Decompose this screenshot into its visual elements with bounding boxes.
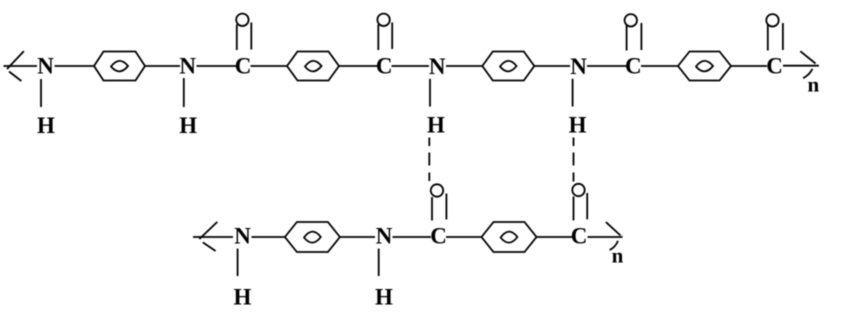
svg-text:C: C xyxy=(625,54,642,79)
left repeat bracket (top chain) xyxy=(7,51,24,81)
wire C4 to right bracket xyxy=(783,65,819,67)
wire C2 to N3 xyxy=(392,65,430,67)
right repeat bracket (bottom chain) xyxy=(606,222,621,250)
svg-text:N: N xyxy=(570,54,587,79)
C3=O3 double bond xyxy=(627,23,642,51)
wire C1 to B2 xyxy=(251,65,288,67)
svg-text:H: H xyxy=(427,113,445,138)
benzene ring B3 xyxy=(482,52,534,81)
benzene ring B1 xyxy=(94,52,145,81)
C2=O2 double bond xyxy=(378,23,392,51)
carbonyl oxygen O6 xyxy=(572,184,584,196)
wire C6 to right bracket xyxy=(588,236,623,238)
carbonyl oxygen O4 xyxy=(766,14,778,26)
wire B5 to N6 xyxy=(340,236,375,238)
svg-text:n: n xyxy=(612,244,624,268)
bond N6-H6 xyxy=(378,249,380,276)
benzene ring B2 xyxy=(287,52,339,81)
wire N3 to B3 xyxy=(446,65,483,67)
C4=O4 double bond xyxy=(768,23,783,51)
C1=O1 double bond xyxy=(237,23,252,51)
benzene ring B5 xyxy=(285,222,340,252)
bond N2-H2 xyxy=(183,78,185,107)
svg-text:H: H xyxy=(375,285,393,310)
wire N5 to B5 xyxy=(252,236,286,238)
wire bracket to N5 xyxy=(193,236,233,238)
carbonyl oxygen O3 xyxy=(625,14,637,26)
wire bracket to N1 xyxy=(4,65,38,67)
bond N4-H4 xyxy=(572,79,574,107)
wire B4 to C4 xyxy=(731,65,767,67)
svg-text:C: C xyxy=(430,224,447,249)
C5=O5 double bond xyxy=(432,194,446,221)
wire N6 to C5 xyxy=(393,236,432,238)
carbonyl oxygen O5 xyxy=(431,184,443,196)
svg-text:N: N xyxy=(376,224,393,249)
svg-text:N: N xyxy=(179,54,196,79)
benzene ring B4 xyxy=(678,52,731,81)
svg-text:C: C xyxy=(571,224,588,249)
wire N4 to C3 xyxy=(587,65,627,67)
wire B6 to C6 xyxy=(537,236,573,238)
benzene ring B6 xyxy=(482,222,537,252)
wire B2 to C2 xyxy=(339,65,378,67)
hydrogen bond H4...O6 (dashed) xyxy=(573,138,575,182)
carbonyl oxygen O2 xyxy=(377,14,389,26)
svg-text:H: H xyxy=(234,285,252,310)
left repeat bracket (bottom chain) xyxy=(199,222,217,251)
svg-text:H: H xyxy=(179,113,197,138)
wire B1 to N2 xyxy=(145,65,180,67)
svg-text:N: N xyxy=(37,54,54,79)
svg-text:C: C xyxy=(766,54,783,79)
svg-text:n: n xyxy=(807,73,819,97)
wire C5 to B6 xyxy=(446,236,482,238)
svg-text:H: H xyxy=(569,113,587,138)
wire B3 to N4 xyxy=(534,65,570,67)
bond N3-H3 xyxy=(429,79,431,107)
bond N1-H1 xyxy=(40,79,42,107)
right repeat bracket (top chain) xyxy=(800,51,815,78)
wire N1 to ring B1 xyxy=(55,65,95,67)
C6=O6 double bond xyxy=(574,193,588,220)
carbonyl oxygen O1 xyxy=(236,14,248,26)
hydrogen bond H3...O5 (dashed) xyxy=(428,138,430,182)
wire C3 to B4 xyxy=(641,65,678,67)
svg-text:C: C xyxy=(376,54,393,79)
svg-text:N: N xyxy=(234,224,251,249)
wire N2 to C1 xyxy=(197,65,237,67)
svg-text:H: H xyxy=(37,113,55,138)
svg-text:C: C xyxy=(235,54,252,79)
svg-text:N: N xyxy=(429,54,446,79)
bond N5-H5 xyxy=(237,249,239,276)
